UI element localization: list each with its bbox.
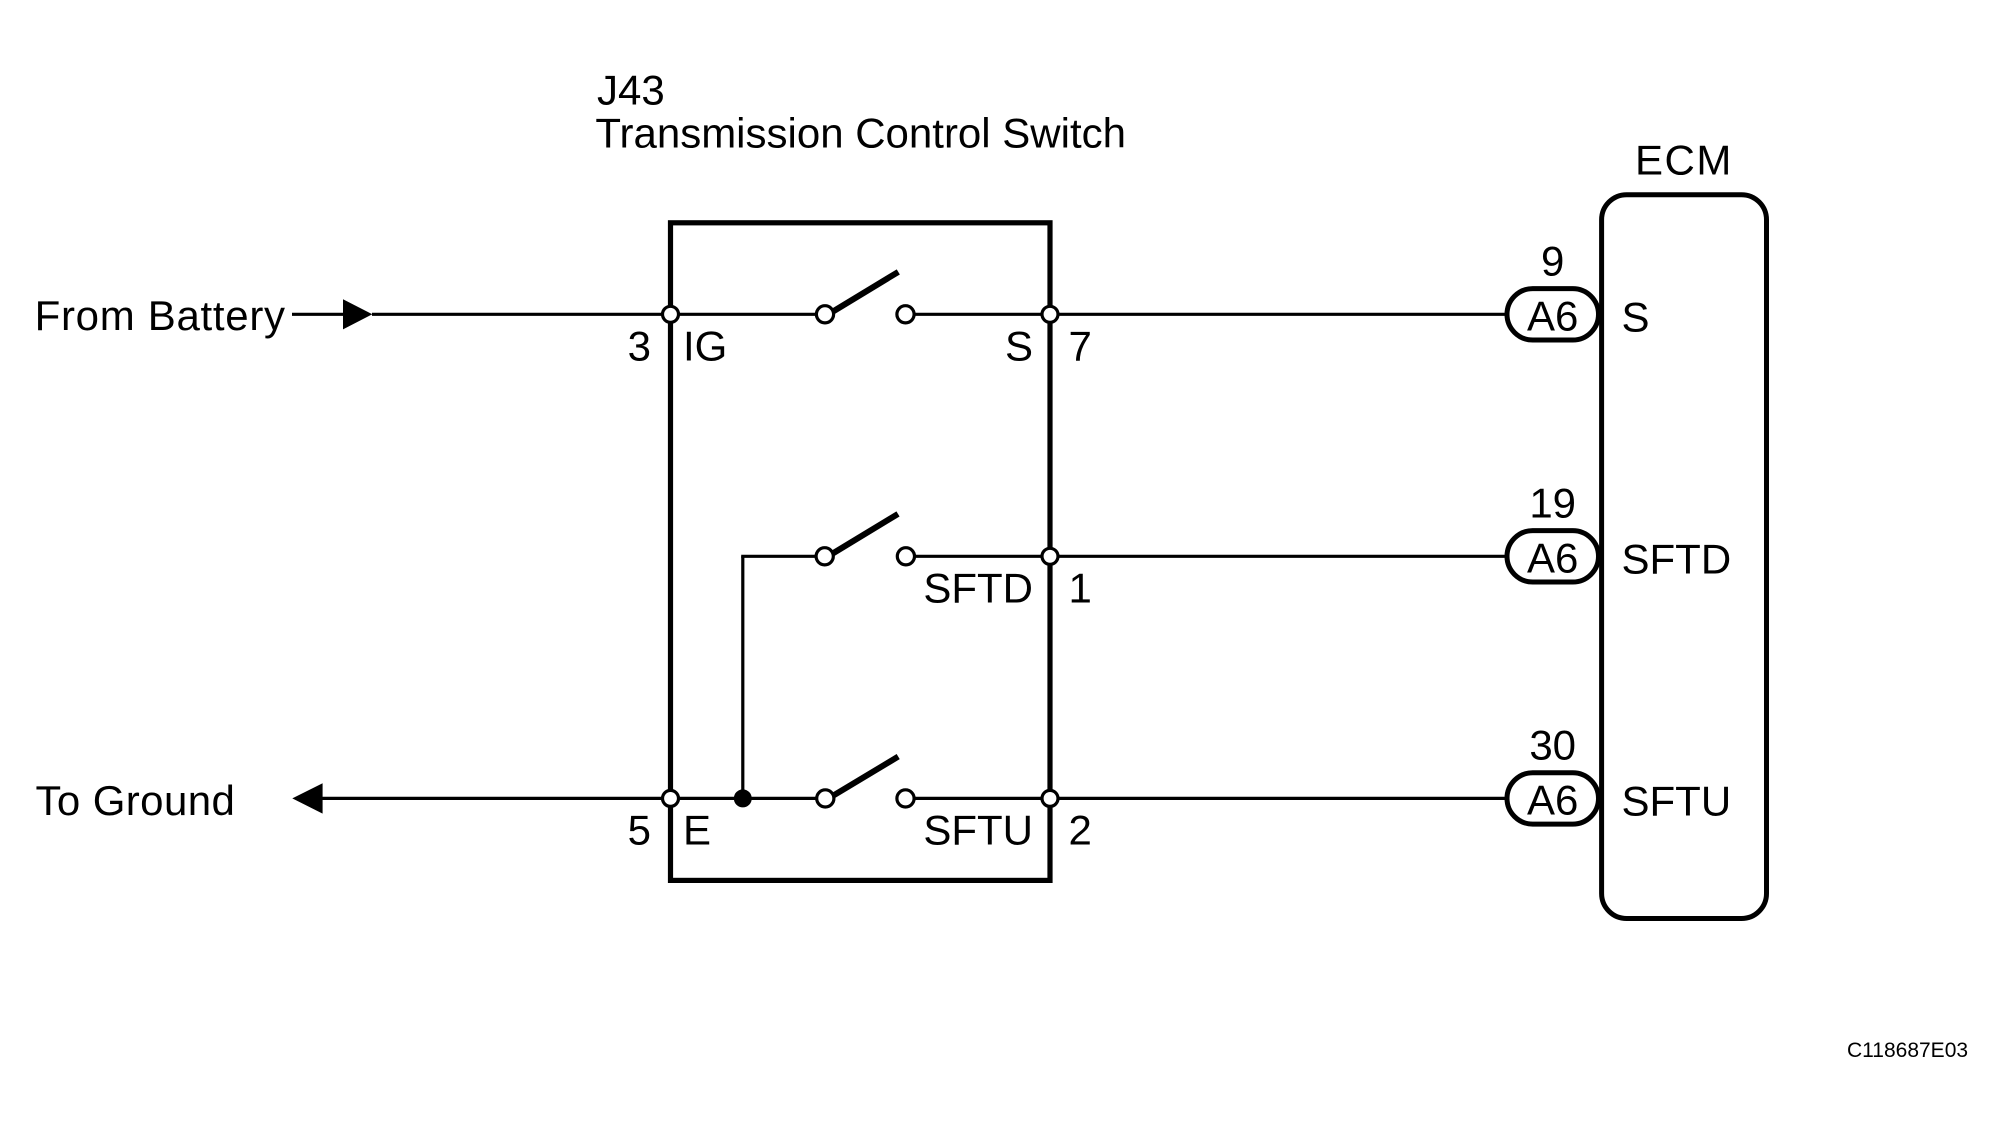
svg-text:ECM: ECM (1635, 136, 1733, 183)
svg-text:3: 3 (628, 322, 651, 369)
svg-text:C118687E03: C118687E03 (1847, 1039, 1968, 1062)
svg-text:19: 19 (1529, 479, 1576, 526)
svg-text:SFTU: SFTU (923, 806, 1033, 853)
svg-text:7: 7 (1069, 322, 1092, 369)
ECM U1 connector body (1602, 195, 1767, 919)
connector A6 pin 9 pill (1507, 289, 1599, 340)
switch SW3 right contact (897, 790, 914, 807)
wire To Ground to switch pin 5 E (322, 797, 825, 800)
svg-text:A6: A6 (1527, 292, 1578, 339)
wire switch pin 2 SFTU to ECM pin 30 (906, 797, 1507, 800)
svg-text:S: S (1005, 322, 1033, 369)
switch SW3 blade (833, 757, 898, 796)
node pin 5 E on box left edge (663, 790, 679, 806)
svg-text:SFTU: SFTU (1622, 777, 1732, 824)
wire From Battery lead-in (292, 313, 346, 316)
svg-text:SFTD: SFTD (923, 564, 1033, 611)
wire SFTD branch horizontal (741, 555, 825, 558)
node pin 7 S on box right edge (1042, 306, 1058, 322)
switch SW2 left contact (816, 548, 833, 565)
switch SW1 right contact (897, 306, 914, 323)
svg-text:IG: IG (683, 322, 727, 369)
switch SW1 left contact (816, 306, 833, 323)
switch SW3 left contact (817, 790, 834, 807)
svg-text:2: 2 (1069, 806, 1092, 853)
svg-text:E: E (683, 806, 711, 853)
junction dot SFTD branch on E wire (734, 789, 752, 807)
node pin 3 IG on box left edge (663, 306, 679, 322)
node pin 1 SFTD on box right edge (1042, 548, 1058, 564)
connector A6 pin 19 pill (1507, 531, 1599, 582)
wire switch pin 7 S to ECM pin 9 (906, 313, 1507, 316)
svg-text:To Ground: To Ground (36, 777, 236, 824)
svg-text:S: S (1622, 293, 1650, 340)
svg-text:30: 30 (1529, 721, 1576, 768)
switch SW2 right contact (897, 548, 914, 565)
switch SW2 blade (833, 514, 898, 554)
connector A6 pin 30 pill (1507, 773, 1599, 824)
wire SFTD branch vertical from E node (741, 556, 744, 798)
svg-text:5: 5 (628, 806, 651, 853)
svg-text:9: 9 (1541, 237, 1564, 284)
arrow From Battery (points right) (343, 299, 372, 329)
wire From Battery to switch pin 3 IG (372, 313, 825, 316)
svg-text:Transmission Control Switch: Transmission Control Switch (595, 110, 1126, 157)
svg-text:A6: A6 (1527, 776, 1578, 823)
svg-text:1: 1 (1069, 564, 1092, 611)
arrow To Ground (points left) (292, 783, 322, 813)
wire switch pin 1 SFTD to ECM pin 19 (906, 555, 1506, 558)
switch SW1 blade (833, 272, 898, 312)
node pin 2 SFTU on box right edge (1042, 790, 1058, 806)
svg-text:SFTD: SFTD (1622, 535, 1732, 582)
svg-text:A6: A6 (1527, 534, 1578, 581)
svg-text:J43: J43 (597, 66, 665, 113)
switch J43 body box (671, 223, 1051, 881)
svg-text:From Battery: From Battery (35, 292, 286, 339)
